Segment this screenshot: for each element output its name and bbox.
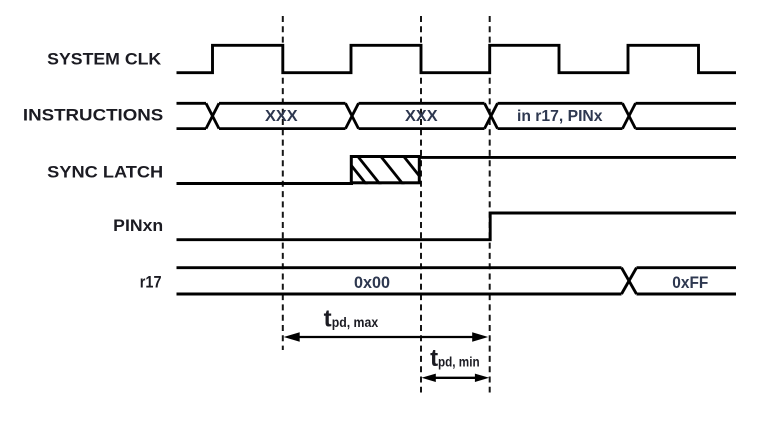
svg-text:pd, max: pd, max (332, 314, 379, 330)
SYNC LATCH high wire (420, 156, 737, 159)
svg-text:0x00: 0x00 (354, 273, 390, 292)
SYNC LATCH low wire (177, 182, 354, 185)
bus crossover 2 (x=351) (346, 103, 359, 128)
t_pd_max label (324, 306, 379, 333)
r17 segment 0x00 (177, 266, 622, 269)
PINxn waveform (177, 213, 737, 240)
hatch stroke 2 (357, 155, 381, 185)
dashed marker line 3 (PINxn transition, x=489.7) (489, 16, 491, 393)
hatch stroke 1 (343, 155, 367, 185)
hatch stroke 3 (380, 155, 404, 185)
bus crossover 1 (x=212.5) (206, 103, 219, 128)
bus crossover 4 (x=628) (623, 103, 636, 128)
svg-text:SYSTEM CLK: SYSTEM CLK (47, 50, 162, 69)
svg-text:r17: r17 (140, 273, 162, 292)
dashed marker line 1 (clock falling edge, x=282.8) (282, 16, 284, 350)
t_pd_min label (430, 345, 480, 372)
dashed marker line 2 (sync latch end, x=421) (420, 16, 422, 393)
t_pd_max dimension arrow (284, 332, 489, 342)
SYSTEM CLK waveform (177, 45, 737, 72)
r17 bus waveform (177, 268, 737, 294)
r17 segment 0xFF (637, 266, 737, 269)
svg-text:t: t (324, 306, 332, 333)
r17 crossover (x=629) (622, 268, 637, 294)
svg-text:XXX: XXX (265, 108, 298, 125)
svg-text:pd, min: pd, min (438, 353, 480, 369)
bus segment "in r17, PINx" (498, 102, 623, 105)
bus segment XXX 2 (359, 102, 485, 105)
t_pd_min dimension arrow (422, 374, 490, 382)
hatch stroke 4 (403, 155, 427, 185)
svg-text:INSTRUCTIONS: INSTRUCTIONS (23, 106, 163, 125)
svg-text:t: t (430, 345, 438, 372)
INSTRUCTIONS bus waveform (177, 103, 737, 128)
bus segment start (177, 102, 207, 105)
svg-text:0xFF: 0xFF (672, 273, 708, 292)
SYNC LATCH hatched latch window box (343, 155, 427, 185)
svg-text:in r17, PINx: in r17, PINx (517, 108, 603, 125)
bus crossover 3 (x=489.5) (485, 103, 498, 128)
bus segment end (636, 102, 737, 105)
svg-text:XXX: XXX (405, 108, 438, 125)
svg-text:PINxn: PINxn (113, 216, 163, 235)
bus segment XXX 1 (219, 102, 346, 105)
svg-text:SYNC LATCH: SYNC LATCH (47, 162, 163, 181)
